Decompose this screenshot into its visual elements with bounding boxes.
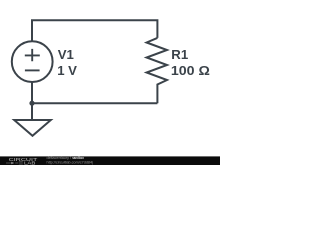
svg-text:http://circuitlab.com/c7dd84j: http://circuitlab.com/c7dd84j xyxy=(47,161,94,165)
svg-text:deltacentaury /: deltacentaury / xyxy=(47,156,72,160)
resistor R1 zigzag with bottom lead xyxy=(147,38,167,103)
svg-text:sandbox: sandbox xyxy=(72,156,84,160)
svg-text:1 V: 1 V xyxy=(57,63,77,78)
svg-text:LAB: LAB xyxy=(24,161,35,166)
wire bottom run xyxy=(32,102,157,104)
watermark bar xyxy=(0,156,220,165)
CircuitLab logo wire motif xyxy=(6,162,23,164)
ground symbol triangle xyxy=(14,120,51,136)
wire V1 bottom stub xyxy=(31,82,33,103)
svg-text:R1: R1 xyxy=(171,47,188,62)
svg-text:100 Ω: 100 Ω xyxy=(171,63,210,78)
node junction dot xyxy=(29,101,34,106)
V1 minus sign xyxy=(25,69,40,71)
wire ground stub xyxy=(31,103,33,120)
wire top run: V1 top to R1 top xyxy=(32,20,157,41)
svg-text:V1: V1 xyxy=(58,47,74,62)
voltage source V1 circle xyxy=(12,41,53,82)
V1 plus sign xyxy=(25,49,40,61)
CircuitLab logo diode triangle xyxy=(11,162,14,164)
